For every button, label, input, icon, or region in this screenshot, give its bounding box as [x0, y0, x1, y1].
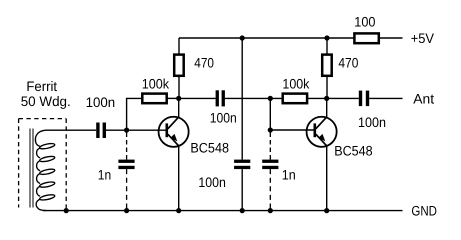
- svg-text:GND: GND: [411, 204, 437, 219]
- svg-text:BC548: BC548: [334, 144, 373, 159]
- svg-text:1n: 1n: [282, 168, 296, 183]
- svg-text:1n: 1n: [98, 167, 111, 182]
- svg-text:+5V: +5V: [411, 31, 435, 46]
- svg-text:100n: 100n: [86, 95, 116, 110]
- svg-text:50 Wdg.: 50 Wdg.: [21, 94, 71, 109]
- svg-text:100k: 100k: [282, 77, 309, 92]
- svg-text:100n: 100n: [358, 115, 386, 130]
- svg-text:Ant: Ant: [413, 91, 434, 106]
- svg-text:BC548: BC548: [190, 140, 229, 155]
- svg-text:470: 470: [338, 55, 358, 70]
- svg-text:100n: 100n: [210, 111, 237, 126]
- svg-text:100k: 100k: [142, 77, 169, 92]
- svg-text:470: 470: [194, 55, 214, 70]
- svg-text:100n: 100n: [198, 175, 226, 190]
- svg-text:100: 100: [354, 14, 375, 29]
- svg-text:Ferrit: Ferrit: [26, 79, 57, 94]
